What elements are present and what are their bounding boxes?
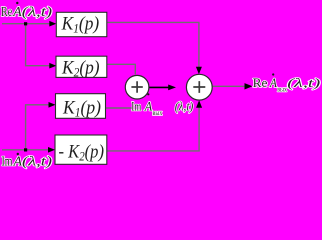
svg-text:(λ,t): (λ,t): [22, 4, 53, 19]
svg-text:вых: вых: [277, 86, 287, 94]
svg-text:Im: Im: [131, 100, 141, 114]
svg-text:A: A: [269, 76, 277, 90]
svg-text:K2(p): K2(p): [61, 57, 100, 79]
svg-text:Re: Re: [253, 76, 268, 90]
svg-text:Im: Im: [2, 154, 13, 169]
svg-text:Re: Re: [1, 4, 12, 19]
svg-text:A: A: [144, 100, 153, 114]
svg-text:(λ,t): (λ,t): [287, 76, 320, 90]
svg-text:(λ,t): (λ,t): [22, 154, 53, 169]
svg-text:вых: вых: [153, 109, 163, 117]
svg-text:K1(p): K1(p): [62, 97, 101, 119]
svg-text:K1(p): K1(p): [61, 14, 100, 36]
svg-text:(λ,t): (λ,t): [175, 100, 194, 114]
